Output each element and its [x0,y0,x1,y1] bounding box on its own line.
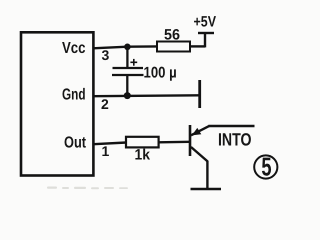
svg-text:Vcc: Vcc [62,40,86,57]
svg-text:INTO: INTO [218,130,252,150]
ground [191,188,222,191]
svg-text:5: 5 [261,152,271,182]
wire collector down [206,161,208,188]
wire 1k to base [159,141,190,144]
figure number 5 [254,152,277,182]
svg-text:+5V: +5V [194,14,217,31]
pin 1 wire [94,143,127,145]
pin 3 wire [93,46,158,48]
node junction Gnd-cap [124,92,131,99]
svg-text:2: 2 [101,96,109,112]
resistor R2 1k [126,137,159,148]
capacitor C1 [112,48,144,95]
svg-text:Gnd: Gnd [62,87,86,104]
transistor Q1 [190,125,210,162]
ground termination bar [198,80,201,108]
resistor R1 56 [157,42,190,52]
svg-text:100 µ: 100 µ [144,65,177,82]
svg-text:1k: 1k [135,147,151,164]
pin 2 wire [94,94,200,97]
svg-text:3: 3 [102,47,110,63]
svg-text:56: 56 [164,27,180,44]
polarity plus [130,59,137,66]
svg-text:Out: Out [64,135,87,152]
+5V terminal [198,33,214,47]
svg-text:1: 1 [102,143,110,159]
node junction Vcc-cap [124,44,131,51]
scan smudge bottom [47,187,128,190]
IC U1 [21,32,93,175]
wire emitter top [209,125,255,127]
wire resistor to +5V [190,45,205,47]
